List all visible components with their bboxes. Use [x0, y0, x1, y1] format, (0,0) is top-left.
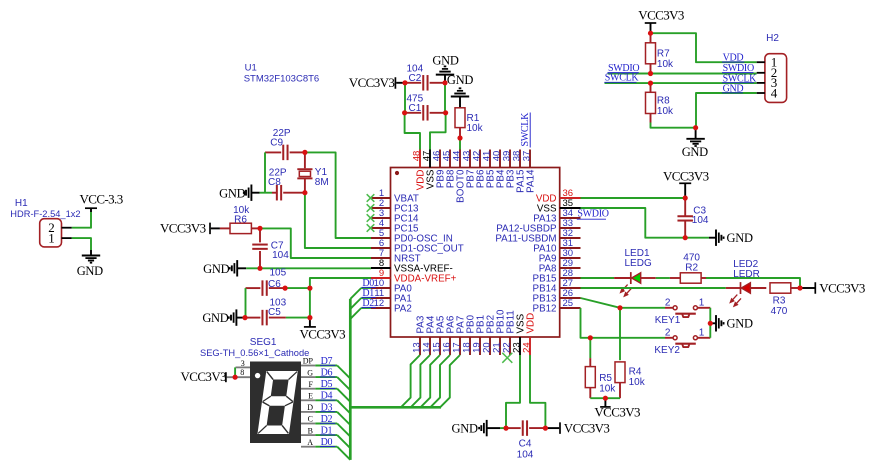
node VCC3V3-C1: [402, 110, 407, 115]
node R7-SWDIO: [648, 71, 653, 76]
U1 pin 32 PA11-USBDM: [560, 237, 581, 239]
wire VSSA: [246, 267, 371, 269]
U1 pin 37 PA14: [529, 150, 531, 168]
svg-text:E: E: [308, 392, 313, 401]
U1 pin 13 PA3: [419, 337, 421, 355]
wire: [709, 308, 711, 324]
wire: [72, 212, 91, 228]
U1 pin 24 VDD: [529, 337, 531, 355]
capacitor C9: [265, 151, 281, 153]
svg-text:VCC3V3: VCC3V3: [594, 405, 640, 420]
power port VCC3V3 (R4/R5): [604, 398, 606, 407]
resistor R4 10k: [615, 362, 625, 383]
wire: [245, 288, 247, 318]
U1 pin 19 PB1: [479, 337, 481, 355]
svg-text:24: 24: [521, 342, 532, 353]
wire: [404, 83, 406, 113]
svg-text:105: 105: [270, 268, 287, 279]
svg-text:R2: R2: [685, 263, 698, 274]
svg-text:C9: C9: [270, 137, 283, 148]
U1 pin 20 PB2: [489, 337, 491, 355]
power port VCC3V3 (C4): [545, 427, 559, 429]
U1 pin 42 PB6: [479, 150, 481, 168]
svg-text:GND: GND: [432, 53, 458, 67]
display SEG1 digit segments: [257, 371, 297, 434]
svg-text:2: 2: [665, 328, 671, 339]
wire bus to pin 14: [411, 355, 430, 407]
connector H1 pin 1: [62, 237, 72, 239]
connector H2 pin 4: [757, 92, 765, 94]
svg-text:10k: 10k: [629, 377, 646, 388]
U1 pin 31 PA10: [560, 247, 581, 249]
node C2-GND: [442, 80, 447, 85]
U1 pin 12 PA2: [371, 307, 391, 309]
svg-text:GND: GND: [77, 264, 103, 278]
svg-text:1: 1: [699, 297, 705, 308]
node VDD36-C3: [683, 195, 688, 200]
svg-text:VCC3V3: VCC3V3: [160, 221, 206, 236]
wire VDD24: [530, 355, 545, 428]
wire: [234, 367, 236, 377]
display SEG1 pin 3: [236, 366, 251, 368]
wire VSS47: [430, 113, 446, 150]
resistor R2 470: [670, 277, 680, 279]
wire PB12: [581, 308, 591, 338]
svg-text:GND: GND: [202, 311, 228, 325]
svg-text:10k: 10k: [599, 383, 616, 394]
wire VSS35: [581, 208, 686, 238]
U1 pin 9 VDDA-VREF+: [371, 277, 391, 279]
node R8-SWCLK: [648, 81, 653, 86]
node VCC3V3-C2: [402, 80, 407, 85]
svg-text:VCC3V3: VCC3V3: [638, 8, 684, 23]
U1 pin 17 PA7: [459, 337, 461, 355]
bus branch horizontal: [350, 406, 441, 409]
capacitor C6 105: [246, 287, 261, 289]
node KEY-GND: [708, 321, 713, 326]
svg-text:GND: GND: [727, 231, 753, 245]
U1 pin 21 PB10: [499, 337, 501, 355]
wire PB13: [581, 298, 621, 308]
wire R2 to VCC: [706, 278, 800, 288]
svg-text:SWCLK: SWCLK: [520, 112, 531, 147]
svg-text:3: 3: [241, 359, 245, 368]
svg-text:D: D: [307, 403, 313, 412]
svg-text:STM32F103C8T6: STM32F103C8T6: [244, 74, 320, 85]
connector H2 pin 1: [757, 61, 765, 63]
U1 pin 2 PC13: [371, 207, 391, 209]
U1 pin 36 VDD: [560, 197, 581, 199]
ground GND (C3): [685, 237, 709, 239]
node R4R5-VCC: [603, 396, 608, 401]
svg-text:GND: GND: [447, 73, 473, 87]
capacitor C4 104: [506, 427, 521, 429]
svg-text:25: 25: [563, 298, 574, 309]
display SEG1 pin G / net D6: [301, 376, 315, 378]
ground GND (keys): [710, 322, 715, 324]
svg-text:SEG-TH_0.56×1_Cathode: SEG-TH_0.56×1_Cathode: [200, 348, 309, 358]
node C1-GND: [443, 110, 448, 115]
wire PB15: [581, 277, 615, 279]
wire R5: [589, 338, 591, 358]
U1 pin 1 VBAT: [371, 197, 391, 199]
wire VDD48: [405, 113, 420, 150]
U1 pin 30 PA9: [560, 257, 581, 259]
connector H2 pin 3: [757, 82, 765, 84]
display SEG1 pin D / net D3: [301, 411, 315, 413]
U1 pin 39 PB3: [509, 150, 511, 168]
svg-text:G: G: [307, 368, 313, 377]
svg-text:VCC3V3: VCC3V3: [564, 420, 610, 435]
svg-text:PA14: PA14: [525, 169, 536, 193]
svg-text:R3: R3: [773, 295, 786, 306]
svg-text:F: F: [309, 380, 314, 389]
svg-text:VCC3V3: VCC3V3: [181, 369, 227, 384]
U1 pin 43 PB7: [469, 150, 471, 168]
wire: [285, 287, 310, 289]
U1 pin 44 BOOT0: [459, 150, 461, 168]
display SEG1 pin F / net D5: [301, 388, 315, 390]
svg-text:GND: GND: [203, 262, 229, 276]
wire VDD to H2: [651, 33, 757, 62]
node C5-VCC: [307, 315, 312, 320]
wire PB14: [581, 287, 726, 289]
U1 pin 8 VSSA-VREF-: [371, 267, 391, 269]
svg-text:GND: GND: [452, 421, 478, 435]
svg-text:37: 37: [521, 151, 532, 162]
display SEG1 pin E / net D4: [301, 399, 315, 401]
wire R4: [619, 308, 621, 360]
capacitor C2: [405, 82, 421, 84]
svg-text:R6: R6: [234, 215, 247, 226]
node GND-H2: [693, 125, 698, 130]
wire: [72, 238, 91, 250]
wire VDDA: [310, 278, 371, 318]
ground GND (H2): [695, 128, 697, 139]
svg-text:1: 1: [699, 327, 705, 338]
svg-text:4: 4: [771, 85, 778, 100]
U1 pin 29 PA8: [560, 267, 581, 269]
wire: [590, 337, 665, 339]
svg-text:2: 2: [665, 298, 671, 309]
svg-text:SWDIO: SWDIO: [577, 209, 608, 220]
bus trunk vertical: [349, 299, 352, 460]
connector H1 pin 2: [62, 227, 72, 229]
wire: [651, 123, 696, 128]
U1 pin 11 PA1: [371, 297, 391, 299]
svg-text:A: A: [307, 438, 313, 447]
svg-text:VDD: VDD: [525, 313, 536, 334]
wire VSS23: [506, 355, 520, 428]
node C3-GND: [683, 235, 688, 240]
svg-text:104: 104: [692, 215, 709, 226]
capacitor C7: [259, 228, 261, 242]
svg-text:DP: DP: [303, 357, 314, 366]
U1 pin 28 PB15: [560, 277, 581, 279]
net label D2 wire (pin 12): [361, 307, 371, 309]
display SEG1 pin A / net D0: [301, 446, 315, 448]
wire: [656, 277, 670, 279]
connector H1 body: [40, 219, 62, 247]
svg-text:VCC3V3: VCC3V3: [663, 168, 709, 183]
svg-text:VCC3V3: VCC3V3: [819, 280, 865, 295]
U1 pin 46 PB9: [439, 150, 441, 168]
U1 pin 10 PA0: [371, 287, 391, 289]
power port VCC3V3 (C3): [684, 183, 686, 198]
svg-text:10k: 10k: [467, 123, 484, 134]
resistor R3 470: [770, 283, 791, 293]
wire: [590, 397, 620, 399]
ground GND (H1): [90, 250, 92, 256]
U1 pin 40 PB4: [499, 150, 501, 168]
net label D0 wire (pin 10): [361, 287, 371, 289]
node C9-Y1: [302, 150, 307, 155]
svg-text:KEY1: KEY1: [655, 315, 681, 326]
display SEG1 decimal point: [255, 373, 260, 378]
microcontroller U1 body STM32F103C8T6: [391, 168, 560, 338]
svg-text:GND: GND: [219, 186, 245, 200]
power port VCC3V3 (C5): [309, 318, 311, 327]
node C6-VDDA: [307, 286, 312, 291]
svg-text:8M: 8M: [315, 177, 329, 188]
U1 pin 25 PB12: [560, 307, 581, 309]
wire OSC_IN: [305, 152, 371, 238]
U1 pin 16 PA6: [449, 337, 451, 355]
display SEG1 pin B / net D1: [301, 434, 315, 436]
U1 pin 6 PD1-OSC_OUT: [371, 247, 391, 249]
svg-text:U1: U1: [245, 63, 257, 74]
U1 pin 23 VSS: [519, 337, 521, 355]
wire: [665, 307, 673, 309]
node C4-VCC: [543, 426, 548, 431]
svg-text:H1: H1: [15, 198, 28, 209]
wire bus to pin 16: [430, 355, 450, 407]
svg-text:C8: C8: [268, 177, 281, 188]
wire: [709, 323, 711, 338]
svg-text:R8: R8: [657, 95, 670, 106]
node KEY2: [588, 335, 593, 340]
svg-text:C: C: [308, 415, 313, 424]
svg-text:KEY2: KEY2: [654, 345, 680, 356]
svg-text:VCC-3.3: VCC-3.3: [80, 191, 123, 206]
U1 pin 22 PB11: [509, 337, 511, 355]
node KEY1: [617, 305, 622, 310]
svg-text:10k: 10k: [657, 59, 674, 70]
node R3-VCC: [797, 285, 802, 290]
node R1-BOOT0: [457, 135, 462, 140]
U1 pin 34 PA13: [560, 217, 581, 219]
svg-text:8: 8: [240, 368, 244, 377]
wire: [444, 83, 446, 113]
push button KEY2: [673, 336, 677, 340]
node SEG-VCC: [233, 375, 238, 380]
wire: [665, 337, 673, 339]
capacitor C8: [260, 192, 272, 194]
node C7-VSSA: [257, 266, 262, 271]
push button KEY1: [673, 306, 677, 310]
display SEG1 pin C / net D2: [301, 423, 315, 425]
svg-text:VCC3V3: VCC3V3: [349, 75, 395, 90]
svg-text:R7: R7: [657, 49, 670, 60]
wire SWCLK: [605, 82, 757, 84]
U1 pin 15 PA5: [439, 337, 441, 355]
U1 pin 5 PD0-OSC_IN: [371, 237, 391, 239]
svg-text:10k: 10k: [657, 106, 674, 117]
net label D1 wire (pin 11): [361, 297, 371, 299]
display SEG1 pin DP / net D7: [301, 365, 315, 367]
svg-text:C2: C2: [409, 73, 422, 84]
U1 pin 14 PA4: [429, 337, 431, 355]
svg-text:GND: GND: [727, 317, 753, 331]
resistor R7 10k: [650, 33, 652, 43]
svg-text:SEG1: SEG1: [250, 337, 277, 348]
svg-text:PA2: PA2: [394, 304, 412, 315]
capacitor C5 103: [245, 317, 260, 319]
resistor R8 10k: [650, 83, 652, 92]
wire VDD36: [581, 197, 686, 199]
node C5-GND: [242, 315, 247, 320]
node C4-GND: [503, 426, 508, 431]
wire: [264, 152, 266, 192]
resistor R1: [459, 97, 461, 108]
svg-text:104: 104: [517, 450, 534, 461]
svg-text:1: 1: [48, 230, 55, 245]
node VCC-R7: [648, 31, 653, 36]
U1 pin 18 PB0: [469, 337, 471, 355]
crystal Y1 8M: [304, 152, 306, 168]
resistor R6 10k: [220, 227, 230, 229]
display SEG1 body: [250, 362, 301, 444]
U1 pin 45 PB8: [449, 150, 451, 168]
power port VCC3V3 (R3): [800, 287, 815, 289]
svg-text:GND: GND: [682, 145, 708, 159]
svg-text:VCC3V3: VCC3V3: [300, 326, 346, 341]
svg-text:LEDG: LEDG: [625, 258, 652, 269]
U1 pin 33 PA12-USBDP: [560, 227, 581, 229]
node C6-right: [283, 286, 288, 291]
svg-text:B: B: [308, 426, 313, 435]
U1 pin 7 NRST: [371, 257, 391, 259]
svg-text:C5: C5: [268, 307, 281, 318]
wire NRST: [260, 228, 371, 258]
U1 pin 3 PC14: [371, 217, 391, 219]
wire SWDIO: [608, 73, 757, 75]
U1 pin 48 VDD: [419, 150, 421, 168]
U1 pin 47 VSS: [429, 150, 431, 168]
node C8-Y1: [302, 190, 307, 195]
LED LED1 LEDG: [614, 277, 631, 279]
capacitor C3 104: [684, 198, 686, 216]
power port VCC-3.3: [90, 208, 92, 212]
svg-text:C4: C4: [519, 439, 532, 450]
svg-text:C1: C1: [409, 103, 422, 114]
wire bus to pin 13: [401, 355, 420, 407]
LED LED2 LEDR: [726, 287, 741, 289]
U1 pin 4 PC15: [371, 227, 391, 229]
display SEG1 pin 8: [227, 376, 250, 378]
svg-text:104: 104: [272, 250, 289, 261]
connector H2 pin 2: [757, 72, 765, 74]
wire: [620, 307, 665, 309]
U1 pin 26 PB13: [560, 297, 581, 299]
ground GND (above C2): [444, 75, 446, 83]
wire bus to pin 17: [440, 355, 460, 407]
svg-text:H2: H2: [766, 33, 779, 44]
svg-text:470: 470: [771, 306, 788, 317]
wire BOOT0: [459, 138, 461, 150]
resistor R5 10k: [589, 358, 591, 367]
U1 pin 38 PA15: [519, 150, 521, 168]
U1 pin 41 PB5: [489, 150, 491, 168]
U1 pin 27 PB14: [560, 287, 581, 289]
capacitor C1: [405, 112, 422, 114]
U1 pin 35 VSS: [560, 207, 581, 209]
wire GND to H2: [696, 93, 757, 128]
svg-text:LEDR: LEDR: [733, 269, 760, 280]
svg-text:HDR-F-2.54_1x2: HDR-F-2.54_1x2: [10, 209, 80, 219]
svg-text:C6: C6: [268, 279, 281, 290]
node R6-C7: [257, 226, 262, 231]
wire OSC_OUT: [305, 193, 371, 248]
wire bus to pin 15: [421, 355, 441, 407]
